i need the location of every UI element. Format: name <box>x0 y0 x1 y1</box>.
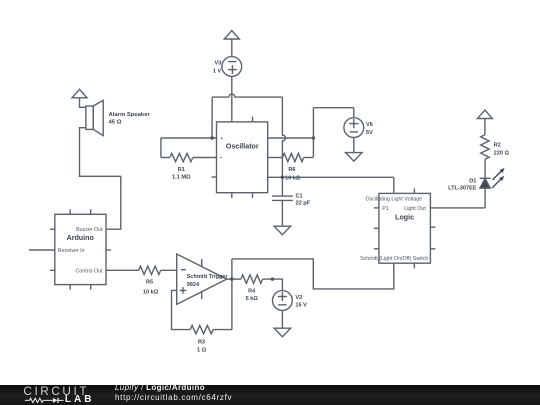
svg-text:C1: C1 <box>296 193 303 199</box>
svg-text:V2: V2 <box>295 295 302 301</box>
svg-text:15 V: 15 V <box>295 303 307 309</box>
svg-text:Oscillator: Oscillator <box>226 143 259 151</box>
svg-text:R3: R3 <box>198 340 205 346</box>
svg-text:Control Out: Control Out <box>76 268 104 274</box>
svg-text:Schmitt (Light On/Off) Switch: Schmitt (Light On/Off) Switch <box>360 256 428 262</box>
svg-text:Receiver In: Receiver In <box>58 248 85 254</box>
svg-text:Light Out: Light Out <box>404 206 426 212</box>
svg-text:Arduino: Arduino <box>67 234 95 242</box>
svg-text:22 pF: 22 pF <box>296 201 311 207</box>
svg-text:R2: R2 <box>494 142 501 148</box>
svg-text:10 kΩ: 10 kΩ <box>143 289 159 295</box>
svg-text:LTL-307EE: LTL-307EE <box>448 185 477 191</box>
svg-text:9924: 9924 <box>187 282 200 288</box>
svg-text:5V: 5V <box>366 130 373 136</box>
svg-text:Schmitt Trigger: Schmitt Trigger <box>187 274 229 280</box>
svg-text:R5: R5 <box>146 280 153 286</box>
svg-text:45 Ω: 45 Ω <box>109 120 122 126</box>
svg-text:1 V: 1 V <box>213 68 222 74</box>
svg-text:R4: R4 <box>248 289 256 295</box>
svg-text:Buzzer Out: Buzzer Out <box>76 227 103 233</box>
svg-text:R1: R1 <box>178 167 185 173</box>
svg-text:V6: V6 <box>366 122 373 128</box>
svg-text:1 Ω: 1 Ω <box>197 347 207 353</box>
svg-text:V3: V3 <box>214 60 221 66</box>
svg-text:5 kΩ: 5 kΩ <box>246 296 259 302</box>
svg-text:10 kΩ: 10 kΩ <box>285 175 301 181</box>
svg-text:Alarm Speaker: Alarm Speaker <box>109 112 151 118</box>
svg-text:R6: R6 <box>288 167 295 173</box>
svg-text:D1: D1 <box>469 178 476 184</box>
svg-text:Oscillating Light Voltage: Oscillating Light Voltage <box>366 197 423 203</box>
svg-text:1.1 MΩ: 1.1 MΩ <box>172 175 191 181</box>
svg-text:Logic: Logic <box>395 214 414 222</box>
svg-text:220 Ω: 220 Ω <box>494 150 510 156</box>
svg-text:P1: P1 <box>382 206 389 212</box>
